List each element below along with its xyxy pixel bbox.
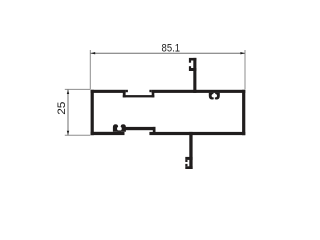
svg-text:25: 25: [56, 102, 68, 115]
svg-text:85.1: 85.1: [162, 43, 181, 55]
